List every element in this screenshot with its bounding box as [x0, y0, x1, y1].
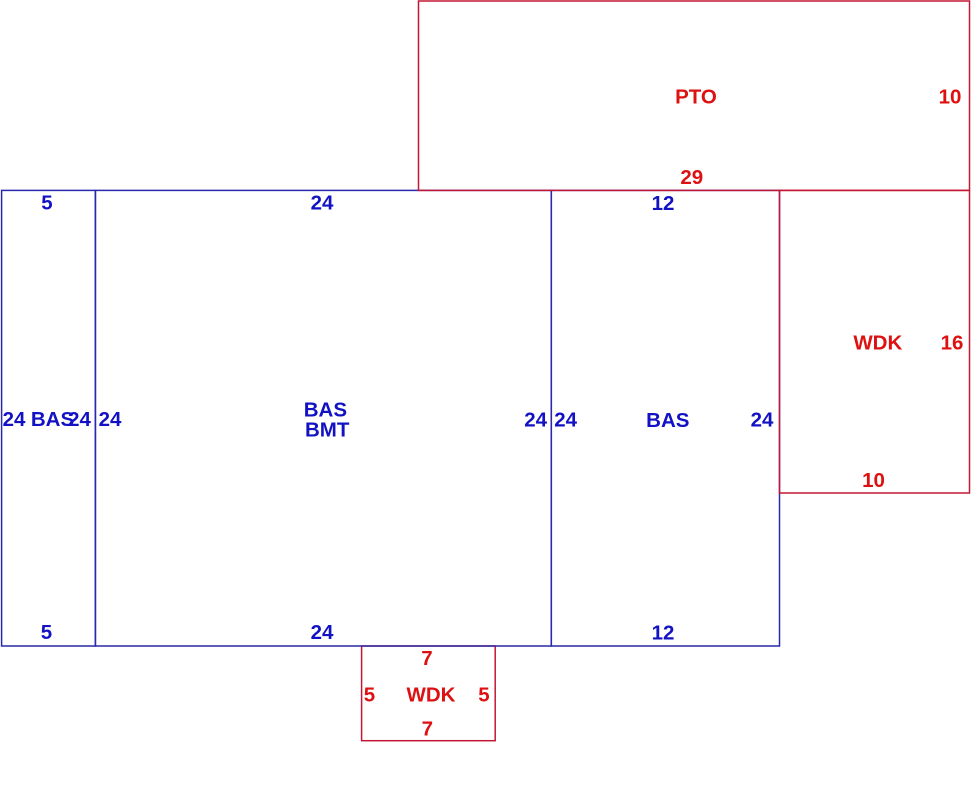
- svg-text:24: 24: [554, 408, 577, 431]
- svg-text:12: 12: [652, 192, 675, 215]
- svg-text:10: 10: [862, 469, 885, 492]
- svg-text:24: 24: [68, 408, 91, 431]
- svg-text:24: 24: [751, 408, 774, 431]
- svg-text:PTO: PTO: [675, 86, 717, 109]
- svg-text:29: 29: [680, 166, 703, 189]
- svg-text:7: 7: [422, 717, 433, 740]
- svg-text:BAS: BAS: [646, 409, 689, 432]
- svg-text:BMT: BMT: [305, 418, 350, 441]
- svg-text:WDK: WDK: [407, 684, 456, 707]
- svg-text:12: 12: [652, 621, 675, 644]
- svg-text:7: 7: [421, 647, 432, 670]
- svg-text:16: 16: [941, 332, 964, 355]
- svg-text:24: 24: [311, 191, 334, 214]
- svg-text:24: 24: [311, 621, 334, 644]
- svg-text:10: 10: [939, 85, 962, 108]
- svg-text:24: 24: [3, 408, 26, 431]
- svg-text:24: 24: [99, 408, 122, 431]
- svg-text:WDK: WDK: [853, 332, 902, 355]
- svg-text:5: 5: [364, 684, 375, 707]
- svg-text:5: 5: [478, 684, 489, 707]
- svg-text:5: 5: [41, 191, 52, 214]
- svg-text:5: 5: [41, 621, 52, 644]
- svg-text:24: 24: [524, 408, 547, 431]
